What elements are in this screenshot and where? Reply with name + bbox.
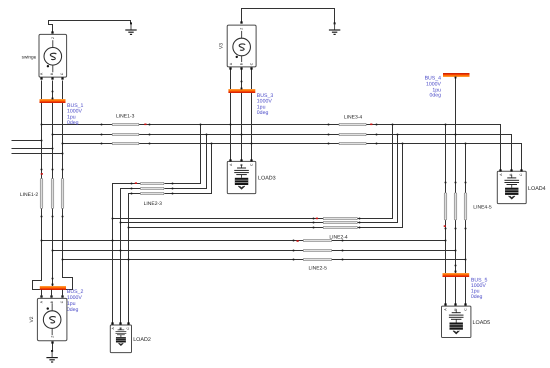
bus bar BUS_3 xyxy=(228,89,255,93)
wire LINE2-4 phase C xyxy=(129,144,403,228)
svg-text:Z: Z xyxy=(51,37,55,39)
svg-text:Z: Z xyxy=(240,28,244,30)
pin BUS_1 top xyxy=(52,98,54,100)
terminal dots LINE1-3 xyxy=(101,124,151,145)
wire jog phase A into BUS_2 left end xyxy=(33,241,42,290)
wire BUS_1 phase A column (swinge A to LINE1-2 to BUS_2 row) xyxy=(41,81,43,241)
svg-text:V3: V3 xyxy=(219,43,225,49)
transmission line LINE2-5 xyxy=(303,239,331,260)
junction dots: BUS_2 rows at BUS_5 columns xyxy=(445,240,467,261)
wire row phase A: BUS_1 to LINE1-3/BUS_3/LINE3-4 to LOAD4 A xyxy=(42,125,501,170)
pin BUS_4 bottom xyxy=(455,77,457,79)
svg-text:0deg: 0deg xyxy=(257,110,269,116)
pin labels LOAD4 A B C xyxy=(499,173,523,176)
pin labels LOAD5 A B C xyxy=(443,308,467,311)
terminal dots LINE3-4 xyxy=(328,124,378,145)
svg-text:LINE3-4: LINE3-4 xyxy=(344,114,363,120)
svg-text:LINE1-3: LINE1-3 xyxy=(116,114,135,120)
wire BUS_2 row phase A through LINE2-5 to BUS_5 column xyxy=(42,240,446,242)
wire LINE2-3 phase B left lead down to LOAD2 B xyxy=(121,189,141,323)
bus bar BUS_4 xyxy=(443,73,470,77)
wire BUS_2 row phase C xyxy=(63,259,466,261)
svg-text:LINE4-5: LINE4-5 xyxy=(473,204,492,210)
ground G1 (swinge neutral) xyxy=(125,22,136,34)
transmission line LINE3-4 xyxy=(339,123,366,144)
pin BUS_2 top xyxy=(52,284,54,286)
wire BUS_1 phase C column xyxy=(62,81,64,260)
junction dots: LINE2-4 rows at LOAD2 columns xyxy=(112,218,130,229)
wire V2 Z to ground G2 xyxy=(52,344,54,351)
junction dots: left stubs xyxy=(41,140,64,155)
junction dot above BUS_3 xyxy=(241,81,243,83)
ground G3 (V3 neutral) xyxy=(329,22,340,34)
svg-text:0deg: 0deg xyxy=(429,93,441,99)
red measurement mark LINE2-3 phase A xyxy=(135,182,137,184)
wire LINE2-3 phase C right lead riser xyxy=(165,144,212,194)
svg-text:Z: Z xyxy=(50,336,54,338)
pins LOAD5 A B C xyxy=(444,303,466,305)
pin labels LOAD3 A B C xyxy=(229,163,254,166)
load LOAD5 xyxy=(442,306,471,337)
wire BUS_5 phase A column (row A through LINE4-5 to LOAD5 A) xyxy=(445,125,447,304)
pin labels V3 A B C xyxy=(229,62,254,65)
svg-text:LINE2-5: LINE2-5 xyxy=(309,266,328,272)
pins V3 A B C (bottom) xyxy=(229,67,252,69)
junction dot above BUS_2 xyxy=(52,278,54,280)
red measurement mark LINE1-2 phase A xyxy=(41,173,43,175)
junction dots: BUS_2 rows at LOAD2 columns xyxy=(112,240,130,261)
junction dots: top rows at BUS_1 columns xyxy=(41,124,64,145)
wire LINE2-3 phase A left lead down to LOAD2 A xyxy=(113,184,141,323)
pin V3 Z (top) xyxy=(240,21,242,23)
load LOAD2 xyxy=(110,325,131,353)
svg-text:LOAD4: LOAD4 xyxy=(528,186,546,192)
junction dots: LINE2-3 risers at top rows xyxy=(200,124,213,145)
pin V2 Z (bottom) xyxy=(51,341,53,343)
wire BUS_1 phase B column xyxy=(52,81,54,287)
wire BUS_2 row phase B xyxy=(53,250,456,252)
wire BUS_3 phase C column xyxy=(251,69,253,160)
wire row phase C: BUS_1 to LOAD4 C xyxy=(63,144,522,170)
junction dots: top rows at BUS_3 columns xyxy=(230,124,253,145)
pins swinge A B C (bottom) xyxy=(40,77,63,79)
svg-text:0deg: 0deg xyxy=(471,294,483,300)
svg-text:1pu: 1pu xyxy=(67,301,76,307)
wire stub phase B to left edge xyxy=(12,148,53,150)
pins LOAD3 A B C xyxy=(229,159,252,161)
ground G2 (V2 neutral) xyxy=(46,350,57,362)
wire swinge Z pin to ground G1 xyxy=(49,21,131,32)
terminal dots LINE4-5 xyxy=(445,182,467,230)
pin swinge Z (top) xyxy=(51,31,53,33)
red measurement mark LINE2-4 phase A xyxy=(316,218,318,220)
wire LINE2-3 phase A right lead riser xyxy=(165,125,201,184)
svg-text:0deg: 0deg xyxy=(67,307,79,313)
svg-text:swinge: swinge xyxy=(22,54,37,59)
pin labels V2 A B C xyxy=(40,300,64,303)
svg-text:LOAD5: LOAD5 xyxy=(473,320,491,326)
svg-text:LOAD2: LOAD2 xyxy=(133,337,151,343)
svg-text:LINE1-2: LINE1-2 xyxy=(20,192,39,198)
svg-text:LINE2-4: LINE2-4 xyxy=(329,235,348,241)
wire stub phase A to left edge xyxy=(12,140,42,142)
terminal dots LINE2-3 xyxy=(131,183,174,195)
transmission line LINE1-3 xyxy=(112,123,139,144)
wire stub phase C to left edge xyxy=(12,153,63,155)
bus bar BUS_5 xyxy=(443,273,470,277)
terminal dots LINE2-4 xyxy=(313,218,361,229)
red measurement mark LINE4-5 phase A xyxy=(444,225,446,227)
value labels BUS_3: 1000V 1pu 0deg xyxy=(257,93,274,116)
pin labels LOAD2 A B C xyxy=(111,327,130,330)
wire LINE2-4 phase B xyxy=(121,135,398,223)
junction dots: BUS_2 rows at BUS_1 columns xyxy=(41,240,64,261)
pin BUS_5 top xyxy=(455,271,457,273)
red measurement mark LINE2-5 phase A xyxy=(297,240,299,242)
pins V2 A B C (top) xyxy=(40,295,63,297)
generator V2 (G) xyxy=(37,298,67,340)
junction dot above BUS_1 xyxy=(52,91,54,93)
wire row phase B: BUS_1 to LOAD4 B xyxy=(53,135,512,170)
wire LINE2-3 phase B right lead riser xyxy=(165,135,207,189)
pins LOAD4 A B C xyxy=(499,169,522,171)
svg-text:LOAD3: LOAD3 xyxy=(258,176,276,182)
transmission line LINE1-2 xyxy=(40,179,63,209)
transmission line LINE2-4 xyxy=(323,217,357,228)
junction dots: LINE2-4 risers at top rows xyxy=(392,124,404,145)
transmission line LINE4-5 xyxy=(444,193,466,220)
pin labels swinge A B C xyxy=(40,72,64,75)
red measurement mark LINE3-4 phase A xyxy=(370,124,372,126)
wire BUS_4 stem phase B column (BUS_4 bar through LINE4-5 to LOAD5 B) xyxy=(455,78,457,304)
value labels BUS_5: 1000V 1pu 0deg xyxy=(471,277,488,300)
wires BUS_2 bar to V2 pins xyxy=(42,290,63,297)
load LOAD4 xyxy=(497,171,526,203)
svg-text:V2: V2 xyxy=(29,316,35,322)
svg-text:1000V: 1000V xyxy=(67,295,83,301)
svg-text:LINE2-3: LINE2-3 xyxy=(144,201,163,207)
generator V3 (G) xyxy=(227,25,256,67)
junction dot above BUS_5 xyxy=(455,265,457,267)
value labels BUS_1: 1000V 1pu 0deg xyxy=(67,103,84,126)
value labels BUS_4: 1000V 1pu 0deg xyxy=(425,75,442,98)
wire V3 Z pin to ground G3 xyxy=(242,9,335,24)
svg-text:0deg: 0deg xyxy=(67,120,79,126)
terminal dots LINE2-5 xyxy=(293,240,344,261)
wire LINE2-3 phase C left lead down to LOAD2 C xyxy=(129,194,141,323)
value labels BUS_2: 1000V 1pu 0deg xyxy=(67,289,84,313)
pins LOAD2 A B C xyxy=(111,322,129,324)
transmission line LINE2-3 xyxy=(140,182,164,194)
bus bar BUS_1 xyxy=(40,99,66,103)
red measurement mark LINE1-3 phase A xyxy=(144,124,146,126)
pin BUS_3 top xyxy=(241,88,243,90)
terminal dots LINE1-2 xyxy=(41,169,64,218)
wire BUS_3 phase B column xyxy=(241,69,243,160)
wire BUS_5 phase C column xyxy=(465,144,467,304)
load LOAD3 xyxy=(227,161,256,193)
wire jog phase C into BUS_2 right end xyxy=(63,260,73,290)
bus bar BUS_2 xyxy=(40,286,66,290)
wire BUS_3 phase A column (V3 A to LOAD3 A) xyxy=(230,69,232,160)
junction dots: LINE4-5 columns at top rows xyxy=(445,124,467,145)
wire LINE2-4 phase A: LOAD2 column to BUS_4 row riser xyxy=(113,125,393,219)
generator swinge (G) xyxy=(39,34,67,77)
